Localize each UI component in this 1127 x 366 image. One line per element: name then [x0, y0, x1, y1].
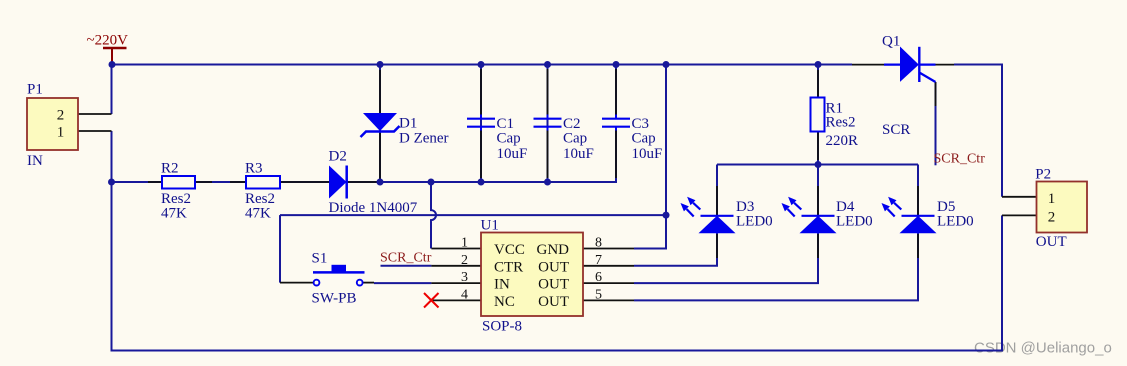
svg-text:R3: R3: [245, 161, 263, 177]
pin lead U1 pin6: [583, 282, 634, 284]
pin lead R3 left: [230, 181, 246, 183]
C1 bottom plate: [467, 126, 495, 128]
pin lead C1 top: [480, 69, 482, 115]
pin lead C2 top: [547, 69, 549, 115]
svg-text:IN: IN: [27, 153, 43, 169]
svg-text:SOP-8: SOP-8: [482, 319, 522, 335]
D1 zener bar: [361, 126, 400, 137]
wire D4 column to U1 pin6: [634, 165, 818, 284]
wire SCR_Ctr stub to U1 pin2: [381, 265, 432, 267]
D3 cathode bar: [701, 215, 734, 217]
svg-text:10uF: 10uF: [632, 146, 663, 162]
pin lead D3 top: [716, 186, 718, 215]
S1 right contact: [357, 280, 363, 286]
pin lead D5 bottom: [917, 234, 919, 258]
svg-text:1: 1: [461, 236, 468, 251]
S1 actuator bar: [313, 271, 365, 274]
pin lead C2 bottom: [547, 131, 549, 179]
svg-text:CTR: CTR: [494, 259, 523, 275]
D4 emission arrow 2 head: [788, 197, 796, 205]
svg-text:Cap: Cap: [632, 131, 656, 147]
C3 top plate: [602, 118, 630, 120]
wire neutral column to U1 pin8: [634, 65, 666, 249]
svg-text:5: 5: [595, 287, 602, 302]
D5 cathode bar: [902, 215, 935, 217]
wire Q1 gate vertical: [935, 82, 937, 165]
capacitor C2: [534, 115, 594, 163]
R2 body: [162, 176, 195, 189]
svg-text:Cap: Cap: [563, 131, 587, 147]
D5 emission arrow 1 head: [882, 203, 890, 211]
pin lead D2 cathode: [348, 181, 381, 183]
svg-text:1: 1: [57, 125, 65, 141]
svg-text:OUT: OUT: [538, 259, 569, 275]
svg-text:VCC: VCC: [494, 242, 525, 258]
Q1 anode lead blue: [884, 63, 901, 65]
pin lead Q1 cathode: [936, 64, 955, 66]
svg-text:R2: R2: [161, 161, 179, 177]
zener diode D1: [361, 113, 449, 147]
resistor R1: [811, 98, 859, 150]
svg-text:OUT: OUT: [538, 294, 569, 310]
LED D4: [782, 197, 873, 233]
svg-text:7: 7: [595, 253, 602, 268]
C1 top plate: [467, 118, 495, 120]
D5 emission arrow 2 shaft: [894, 203, 901, 210]
pin lead D3 bottom: [716, 234, 718, 258]
wire D3 column to U1 pin7: [634, 165, 717, 266]
wire S1 to U1 pin3: [374, 282, 431, 284]
svg-text:U1: U1: [481, 218, 499, 234]
junction P1 pin1 to R2 row: [108, 179, 115, 186]
D5 emission arrow 1 shaft: [888, 209, 895, 217]
junction C1 bottom: [478, 179, 485, 186]
pin lead U1 pin2: [431, 265, 481, 267]
svg-text:LED0: LED0: [937, 214, 974, 230]
D3 emission arrow 1 head: [681, 203, 689, 211]
LED D3: [681, 197, 773, 233]
connector P1: [27, 82, 78, 170]
pin lead U1 pin3: [431, 282, 481, 284]
svg-text:Diode 1N4007: Diode 1N4007: [329, 200, 418, 216]
svg-text:SCR_Ctr: SCR_Ctr: [934, 152, 986, 167]
pin lead P2 pin1: [1002, 196, 1037, 198]
wire P1 pin1 left rail, bottom rail, right riser: [112, 131, 1003, 351]
svg-text:6: 6: [595, 270, 602, 285]
resistor R2: [161, 161, 195, 222]
pin lead P1 pin2: [78, 113, 112, 115]
wire C2 branch: [547, 65, 549, 183]
svg-text:1: 1: [1048, 191, 1056, 207]
pin lead R2 right: [195, 181, 212, 183]
LED D5: [882, 197, 974, 233]
junction S1 net to neutral column: [663, 212, 670, 219]
junction C1 top rail: [478, 61, 485, 68]
svg-text:SW-PB: SW-PB: [312, 291, 357, 307]
wire D1 branch: [379, 65, 381, 183]
svg-text:SCR_Ctr: SCR_Ctr: [380, 251, 432, 266]
D1 triangle: [363, 113, 397, 131]
D5 emission arrow 2 head: [888, 197, 896, 205]
wire C1 branch: [480, 65, 482, 183]
junction C2 bottom: [544, 179, 551, 186]
power port ~220V stem: [111, 48, 113, 62]
pin lead D1 cathode: [379, 133, 381, 179]
svg-text:2: 2: [57, 108, 65, 124]
P2 body: [1037, 182, 1088, 233]
svg-text:SCR: SCR: [882, 122, 910, 138]
wire S1 to pin8 horizontal: [280, 214, 666, 216]
wire R1 branch: [817, 65, 819, 165]
svg-text:8: 8: [595, 236, 602, 251]
svg-text:D Zener: D Zener: [399, 131, 449, 147]
svg-text:P1: P1: [27, 82, 43, 98]
junction C2 top rail: [544, 61, 551, 68]
Q1 triangle: [900, 47, 919, 82]
svg-text:OUT: OUT: [538, 277, 569, 293]
svg-text:OUT: OUT: [1036, 234, 1067, 250]
pin lead U1 pin5: [583, 299, 634, 301]
junction U1 pin1 riser: [428, 179, 435, 186]
pin lead R3 to D2 anode: [280, 181, 329, 183]
pin lead R1 bottom: [817, 132, 819, 161]
wire S1 left riser: [279, 215, 281, 283]
pin lead D4 bottom: [817, 234, 819, 258]
wire LED anode rail: [717, 164, 918, 166]
pin lead Q1 gate: [935, 82, 937, 106]
D4 emission arrow 1 shaft: [788, 209, 795, 217]
D3 emission arrow 2 head: [687, 197, 695, 205]
D4 emission arrow 2 shaft: [794, 203, 801, 210]
svg-text:D2: D2: [329, 149, 347, 165]
pin lead U1 pin4: [431, 299, 481, 301]
pin lead U1 pin8: [583, 248, 634, 250]
pin lead D4 top: [817, 186, 819, 215]
svg-text:2: 2: [461, 253, 468, 268]
wire C3 top branch: [615, 65, 617, 119]
U1 body: [481, 233, 583, 317]
D2 triangle: [329, 166, 347, 199]
svg-text:3: 3: [461, 270, 468, 285]
C2 bottom plate: [534, 126, 562, 128]
D3 triangle: [699, 216, 736, 233]
svg-text:P2: P2: [1035, 167, 1051, 183]
R3 body: [246, 176, 280, 189]
svg-text:4: 4: [461, 287, 468, 302]
S1 button: [332, 265, 347, 273]
svg-text:10uF: 10uF: [497, 146, 528, 162]
wire D5 column to U1 pin5: [634, 165, 918, 301]
svg-text:Res2: Res2: [826, 115, 856, 131]
connector P2: [1035, 167, 1087, 251]
wire Q1 cathode to P2 pin1: [954, 65, 1002, 197]
Q1 cathode bar: [918, 47, 920, 82]
P1 body: [27, 98, 78, 150]
svg-text:Cap: Cap: [497, 131, 521, 147]
svg-text:Q1: Q1: [882, 34, 900, 50]
Q1 gate diagonal: [919, 73, 935, 83]
C3 plate stubs: [615, 115, 617, 131]
D2 cathode bar: [345, 166, 348, 199]
junction power input on top rail: [109, 61, 116, 68]
svg-text:D1: D1: [399, 116, 417, 132]
diode D2: [329, 149, 418, 217]
pin lead R2 left: [148, 181, 162, 183]
pin lead P1 pin1: [78, 130, 112, 132]
D4 emission arrow 1 head: [782, 203, 790, 211]
svg-text:IN: IN: [494, 277, 510, 293]
svg-text:~220V: ~220V: [87, 33, 129, 49]
pin lead S1 left: [280, 282, 313, 284]
IC U1: [461, 218, 602, 335]
svg-text:10uF: 10uF: [563, 146, 594, 162]
R1 body: [811, 98, 825, 132]
capacitor C1: [467, 115, 527, 163]
junction D1 top rail: [377, 61, 384, 68]
pin lead D5 top: [917, 186, 919, 215]
wire top rail: [112, 64, 853, 66]
svg-text:S1: S1: [312, 251, 328, 267]
junction D1 bottom: [377, 179, 384, 186]
C2 plate stubs: [547, 115, 549, 131]
D3 emission arrow 1 shaft: [687, 209, 694, 217]
svg-text:LED0: LED0: [736, 214, 773, 230]
no-connect X on pin4: [424, 293, 439, 308]
pin lead C3 bottom: [615, 131, 617, 179]
svg-text:47K: 47K: [161, 206, 187, 222]
svg-text:LED0: LED0: [836, 214, 873, 230]
svg-text:220R: 220R: [826, 133, 859, 149]
capacitor C3: [602, 115, 662, 163]
svg-text:2: 2: [1048, 210, 1056, 226]
D5 triangle: [900, 216, 937, 233]
power port ~220V bar: [103, 47, 127, 49]
pin lead C3 top: [615, 69, 617, 115]
pin lead U1 pin7: [583, 265, 634, 267]
pin lead S1 right: [363, 282, 374, 284]
pin lead P2 pin2: [1002, 214, 1037, 216]
resistor R3: [245, 161, 280, 222]
wire U1 pin1 vertical with hop: [431, 182, 436, 249]
junction neutral column top rail: [663, 61, 670, 68]
D3 emission arrow 2 shaft: [693, 203, 700, 210]
pin lead U1 pin1: [431, 248, 481, 250]
D4 cathode bar: [802, 215, 835, 217]
wire P1 pin2 drop: [111, 65, 113, 115]
pin lead R1 top: [817, 70, 819, 98]
junction C3 top rail: [613, 61, 620, 68]
C2 top plate: [534, 118, 562, 120]
svg-text:GND: GND: [537, 242, 570, 258]
D4 triangle: [800, 216, 837, 233]
pin lead Q1 anode: [852, 64, 884, 66]
svg-text:47K: 47K: [245, 206, 271, 222]
pin lead C1 bottom: [480, 131, 482, 179]
C3 bottom plate: [602, 126, 630, 128]
wire R2 R3 D2 row and cap bottom rail: [112, 127, 617, 182]
svg-text:NC: NC: [494, 294, 515, 310]
switch S1: [312, 251, 365, 307]
C1 plate stubs: [480, 115, 482, 131]
junction R1 top rail: [815, 61, 822, 68]
Q1 cathode lead blue: [919, 63, 936, 65]
thyristor Q1: [882, 34, 936, 139]
svg-text:CSDN @Ueliango_o: CSDN @Ueliango_o: [974, 340, 1112, 357]
S1 left contact: [314, 280, 320, 286]
pin lead D1 anode: [379, 70, 381, 113]
junction R1 bottom LED rail: [815, 161, 822, 168]
